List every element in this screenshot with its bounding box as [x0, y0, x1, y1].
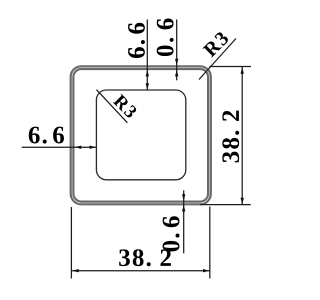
- outer profile contour (inner offset line of 0.6 skin): [73, 69, 208, 202]
- dim 0.6 top skin: wire: [176, 20, 178, 81]
- dim 6.6 top: value label: [128, 23, 145, 58]
- outer profile contour (outer line of 0.6 skin): [71, 66, 211, 204]
- dim 38.2 bottom: extension line left: [70, 207, 72, 279]
- radius R3 outer: value label: [202, 31, 229, 58]
- dim 38.2 right: arrow up: [241, 67, 244, 74]
- dim 6.6 left wall: wire: [22, 146, 97, 148]
- dim 0.6 bottom skin: wire: [183, 190, 185, 253]
- dim 6.6 top: arrow up: [146, 70, 149, 77]
- dim 38.2 bottom: arrow right: [203, 269, 210, 272]
- dim 38.2 right: value label: [222, 111, 239, 163]
- dim 38.2 bottom: wire: [72, 270, 210, 272]
- dim 6.6 top wall: wire: [146, 20, 148, 91]
- dim 6.6 left: value label: [29, 127, 64, 144]
- dim 0.6 top: value label: [157, 18, 174, 56]
- dim 6.6 top: arrow down: [146, 83, 149, 90]
- radius R3 inner: value label: [113, 94, 138, 119]
- radius R3 outer corner: leader: [199, 39, 236, 80]
- dim 38.2 bottom: extension line right: [209, 207, 211, 279]
- dim 38.2 bottom: value label: [119, 249, 171, 266]
- radius R3 inner corner: leader: [97, 90, 128, 123]
- dim 0.6 bottom: arrow down: [182, 194, 185, 201]
- dim 6.6 left: arrow left: [75, 146, 82, 149]
- dim 38.2 right: arrow down: [241, 198, 244, 205]
- dim 0.6 top: arrow down: [175, 59, 178, 66]
- dim 0.6 bottom: value label: [163, 216, 180, 251]
- dim 38.2 right: extension line top: [209, 66, 251, 68]
- dim 38.2 right: extension line bottom: [200, 204, 251, 206]
- inner bore contour: [96, 90, 185, 180]
- dim 6.6 left: arrow right: [90, 146, 97, 149]
- dim 0.6 bottom: arrow up: [182, 205, 185, 212]
- dim 38.2 bottom: arrow left: [72, 269, 79, 272]
- dim 0.6 top: arrow up: [175, 70, 178, 77]
- dim 38.2 right: wire: [241, 67, 243, 205]
